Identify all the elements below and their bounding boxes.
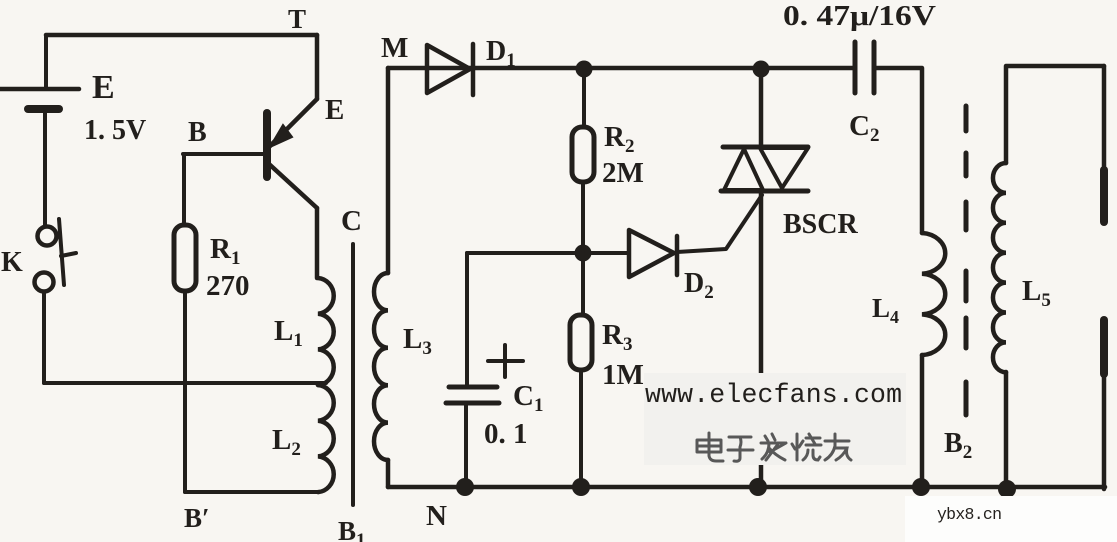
svg-text:T: T	[288, 4, 306, 34]
wire: node to triac	[759, 69, 764, 147]
spark gap upper electrode	[1102, 66, 1107, 222]
inductor L3 (transformer B1 winding)	[374, 273, 432, 460]
svg-text:0. 1: 0. 1	[484, 418, 528, 450]
capacitor C2 0.47u/16V	[783, 1, 936, 146]
battery E 1.5V	[0, 69, 146, 146]
transformer B1 core	[351, 244, 355, 505]
junction node (L4 bottom)	[912, 478, 930, 496]
watermark text dianzifashaoyou (drawn glyphs)	[697, 433, 851, 461]
svg-text:B: B	[188, 117, 207, 148]
wire: bottom rail left section	[185, 490, 318, 494]
wire: R1 to bottom rail B-prime	[183, 291, 187, 492]
wire: L5 to bottom rail	[1004, 372, 1009, 489]
wire: switch to bottom tap rail	[42, 292, 46, 383]
resistor R1 270	[174, 225, 250, 302]
wire: battery top lead	[44, 35, 48, 87]
wire: L4 to bottom rail	[920, 355, 925, 487]
inductor L2 (transformer B1 winding)	[272, 385, 334, 492]
wire: L5 top rail	[1006, 66, 1104, 163]
wire: middle row (C1 corner to D2)	[467, 251, 629, 255]
svg-text:270: 270	[206, 270, 250, 302]
junction node (R3 bottom)	[572, 478, 590, 496]
wire: R2 to middle node	[581, 182, 585, 253]
wire: C1 to bottom rail	[464, 403, 468, 487]
wire: D2 cathode to triac gate	[677, 195, 762, 252]
diode D1	[427, 36, 516, 95]
wire: M node down to L3	[386, 68, 391, 273]
node N	[456, 478, 474, 496]
resistor R2 2M	[572, 121, 644, 189]
diode D2	[629, 230, 714, 303]
capacitor C1 0.1 (polarized)	[446, 345, 543, 450]
wire: battery to switch	[43, 109, 47, 226]
junction node (triac bottom)	[749, 478, 767, 496]
svg-text:0. 47μ/16V: 0. 47μ/16V	[783, 1, 936, 32]
switch K	[1, 219, 76, 292]
svg-text:B′: B′	[184, 503, 210, 533]
wire: tap rail to L1/L2 junction	[44, 381, 326, 385]
transistor (PNP)	[267, 35, 362, 237]
junction node (L5 bottom)	[998, 480, 1016, 498]
wire: node to R2	[582, 69, 586, 127]
wire: top rail left section (battery + to emitter T)	[46, 33, 317, 38]
wire: L3 bottom to rail	[386, 460, 391, 487]
wire: collector to L1	[315, 208, 320, 278]
wire: bottom rail (N to output)	[388, 485, 1105, 490]
transformer B2 core (dashed)	[944, 106, 972, 463]
triac BSCR	[721, 147, 858, 240]
inductor L4 (transformer B2 primary)	[872, 233, 945, 355]
svg-text:1. 5V: 1. 5V	[84, 115, 146, 146]
svg-text:E: E	[325, 94, 344, 126]
svg-text:BSCR: BSCR	[783, 209, 858, 240]
svg-text:E: E	[92, 69, 115, 106]
spark gap lower electrode	[1102, 320, 1107, 489]
wire: R3 to bottom rail	[579, 370, 583, 487]
wire: triac cathode to bottom rail	[759, 191, 764, 487]
svg-text:2M: 2M	[602, 157, 644, 189]
svg-text:N: N	[426, 500, 447, 532]
wire: base lead B	[183, 152, 265, 156]
junction node top (triac anode)	[753, 61, 770, 78]
wire: R3 branch down	[581, 253, 585, 315]
inductor L5 (transformer B2 secondary)	[993, 163, 1051, 372]
junction node (R2/R3/D2 anode)	[575, 245, 592, 262]
wire: C2 to L4 top corner	[874, 68, 922, 233]
svg-text:1M: 1M	[602, 359, 644, 391]
svg-text:M: M	[381, 32, 408, 64]
resistor R3 1M	[570, 315, 644, 391]
wire: base to R1	[182, 154, 186, 225]
svg-text:ybx8.cn: ybx8.cn	[937, 505, 1002, 524]
svg-text:www.elecfans.com: www.elecfans.com	[645, 380, 902, 410]
inductor L1 (transformer B1 winding)	[274, 278, 334, 385]
svg-text:C: C	[341, 205, 362, 237]
watermark ybx8.cn	[905, 496, 1117, 542]
junction node (D1 cathode / R2 top)	[576, 61, 593, 78]
watermark box elecfans	[644, 373, 906, 465]
wire: top rail middle (M to C2)	[388, 66, 854, 71]
svg-text:K: K	[1, 247, 23, 278]
wire: C1 branch	[465, 253, 469, 386]
